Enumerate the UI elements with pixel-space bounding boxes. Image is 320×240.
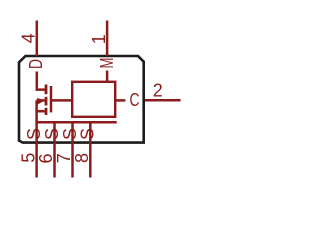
transistor Q1 body arrow	[37, 98, 45, 105]
pin 7 (S) line	[71, 122, 74, 177]
transistor Q1 channel bar middle	[45, 97, 48, 106]
pin 8 (S) line	[89, 122, 92, 177]
svg-text:D: D	[26, 59, 46, 69]
pin 4 (D) top-left pin line	[36, 21, 39, 57]
wire: gate to internal block	[51, 99, 72, 102]
svg-text:M: M	[97, 58, 117, 69]
svg-text:S: S	[78, 128, 98, 140]
component body outline U1	[19, 56, 144, 143]
pin 1 (M) top-right pin line	[106, 21, 109, 57]
wire: drain from D down to MOSFET	[37, 72, 46, 90]
transistor Q1 channel bar bottom	[45, 108, 48, 115]
wire: body connection	[37, 99, 45, 102]
pin 2 (C) right-side pin line	[145, 99, 181, 102]
wire: source bus	[37, 121, 117, 124]
pin 6 (S) line	[53, 122, 56, 177]
wire: block right to C label	[115, 99, 125, 102]
svg-text:7: 7	[54, 153, 74, 163]
svg-text:C: C	[130, 90, 140, 110]
svg-text:8: 8	[72, 153, 92, 163]
svg-text:6: 6	[36, 153, 56, 163]
svg-text:2: 2	[153, 80, 163, 100]
transistor Q1 gate line	[50, 86, 53, 112]
internal block rectangle	[72, 82, 115, 117]
svg-text:4: 4	[18, 33, 38, 43]
wire: M pin to block top	[106, 71, 109, 82]
wire: source connection	[37, 110, 45, 113]
pin 5 (S) line incl. source down-wire	[35, 100, 38, 177]
svg-text:1: 1	[89, 34, 109, 44]
svg-text:S: S	[42, 128, 62, 140]
transistor Q1 channel bar top	[45, 85, 48, 95]
